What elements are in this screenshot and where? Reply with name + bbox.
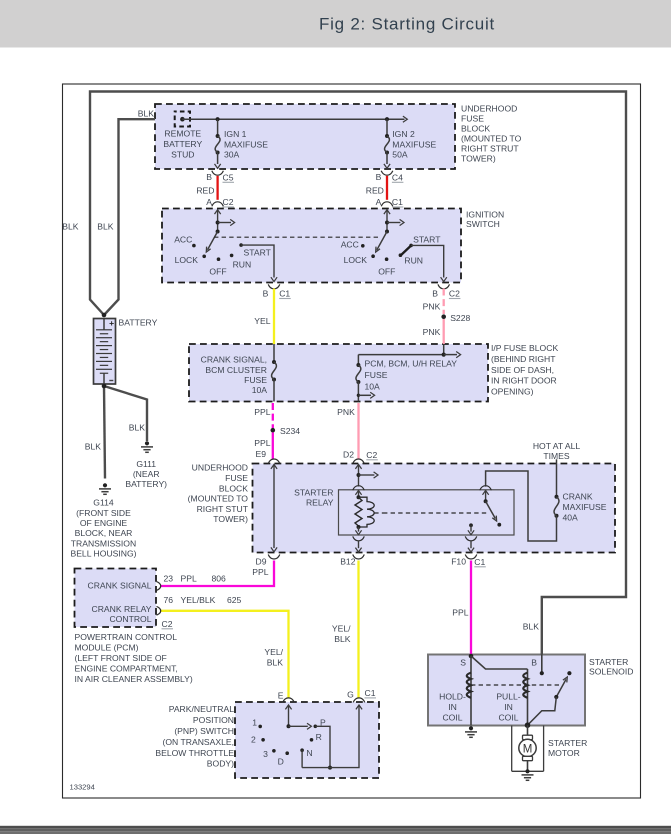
wire PPL S234 to E9 — [272, 432, 274, 459]
header bar — [0, 0, 671, 48]
svg-text:BLK: BLK — [267, 658, 284, 668]
PNP contact dot R — [310, 738, 314, 742]
svg-text:TRANSMISSION: TRANSMISSION — [71, 538, 136, 548]
svg-text:BCM CLUSTER: BCM CLUSTER — [205, 365, 267, 375]
svg-text:BATTERY): BATTERY) — [125, 479, 167, 489]
I/P feed arrow right — [444, 354, 457, 356]
connector C2 exit arc (ignition right) — [438, 284, 450, 289]
svg-text:PPL: PPL — [181, 573, 197, 583]
inner box bottom crossing (coil) — [353, 536, 365, 541]
starter motor circle M — [519, 739, 536, 756]
I/P fuse block box — [189, 344, 488, 402]
ignition left entry arrow — [217, 210, 219, 231]
svg-text:10A: 10A — [252, 385, 268, 395]
PNP contact dot 3 — [272, 749, 276, 753]
svg-text:N: N — [306, 748, 312, 758]
contact dot START left — [239, 243, 243, 247]
solenoid armature — [556, 679, 566, 697]
svg-text:30A: 30A — [224, 150, 240, 160]
svg-text:RUN: RUN — [404, 255, 423, 265]
svg-text:(FRONT SIDE: (FRONT SIDE — [76, 508, 131, 518]
inner box top crossing (switch) — [480, 486, 492, 491]
svg-text:IN RIGHT DOOR: IN RIGHT DOOR — [491, 376, 557, 386]
relay coil inductor loop — [359, 497, 375, 527]
contact dot RUN left — [230, 254, 234, 258]
wire IGN2 drop — [386, 119, 388, 136]
PNP contact dot 1 — [258, 725, 262, 729]
svg-text:(ON TRANSAXLE,: (ON TRANSAXLE, — [163, 737, 234, 747]
svg-text:BLK: BLK — [523, 622, 540, 632]
PCM pin arc 76 — [157, 606, 161, 615]
solenoid S to pull-in wire — [471, 656, 528, 669]
svg-text:BODY): BODY) — [207, 759, 234, 769]
svg-text:PARK/NEUTRAL: PARK/NEUTRAL — [169, 704, 234, 714]
I/P left wire exit — [273, 380, 275, 402]
page frame — [63, 84, 641, 798]
svg-text:FUSE: FUSE — [461, 114, 484, 124]
svg-text:BLK: BLK — [334, 634, 351, 644]
svg-text:YEL: YEL — [254, 316, 270, 326]
svg-text:SOLENOID: SOLENOID — [589, 667, 633, 677]
PNP output wire P branch — [315, 726, 330, 767]
svg-text:Fig 2: Starting Circuit: Fig 2: Starting Circuit — [319, 15, 495, 34]
svg-text:A: A — [206, 197, 212, 207]
svg-text:PULL-: PULL- — [496, 692, 520, 702]
PNP output junction dot — [328, 766, 332, 770]
svg-text:YEL/BLK: YEL/BLK — [181, 595, 216, 605]
wire IGN1 to C5 exit — [217, 153, 219, 165]
relay switch pivot dot — [484, 499, 488, 503]
contact dot ACC left — [192, 244, 196, 248]
svg-text:(MOUNTED TO: (MOUNTED TO — [188, 494, 249, 504]
starter motor brush bottom — [523, 756, 533, 760]
wire PNK S228 to I/P box — [443, 319, 445, 344]
svg-text:A: A — [376, 197, 382, 207]
wire IGN2 to C4 exit — [386, 153, 388, 165]
connector C1 entry arc — [381, 202, 393, 207]
svg-text:BELL HOUSING): BELL HOUSING) — [70, 549, 136, 559]
svg-text:LOCK: LOCK — [175, 255, 199, 265]
svg-text:OFF: OFF — [209, 266, 226, 276]
svg-text:2: 2 — [251, 735, 256, 745]
PCM box — [75, 569, 157, 628]
svg-text:B: B — [432, 288, 438, 298]
svg-text:OPENING): OPENING) — [491, 387, 534, 397]
wire PPL F10 to solenoid S — [470, 561, 472, 655]
connector G entry arc — [353, 698, 365, 703]
svg-text:ENGINE COMPARTMENT,: ENGINE COMPARTMENT, — [75, 663, 178, 673]
I/P lower branch arrow — [358, 394, 371, 396]
relay coil branch arrow — [359, 474, 375, 476]
relay coil lower dot — [357, 525, 361, 529]
svg-text:C2: C2 — [366, 450, 377, 460]
ignition right wiper to LOCK — [377, 232, 387, 250]
connector E entry arc — [283, 698, 295, 703]
svg-text:B: B — [531, 657, 537, 667]
ignition left branch arrow — [218, 222, 231, 224]
svg-text:C2: C2 — [162, 619, 173, 629]
svg-text:MAXIFUSE: MAXIFUSE — [392, 139, 436, 149]
svg-text:B: B — [376, 172, 382, 182]
svg-text:+: + — [109, 318, 114, 328]
battery junction dot top — [102, 313, 107, 318]
PNP wiper arrow to P — [289, 725, 308, 727]
wire PNK I/P to D2 — [357, 403, 359, 459]
ignition left junction dot upper — [216, 221, 220, 225]
splice dot S228 — [441, 314, 446, 319]
solenoid coils-plunger dashed link — [471, 684, 560, 686]
wire PNK dashed ignition C2 to S228 — [443, 289, 445, 315]
svg-text:FUSE: FUSE — [225, 473, 248, 483]
svg-text:BLK: BLK — [97, 221, 114, 231]
relay coil exit wire — [358, 527, 360, 532]
relay pass-through wire E9-D9 — [273, 465, 275, 548]
svg-text:S: S — [460, 658, 466, 668]
relay F10 exit wire — [470, 541, 472, 548]
svg-text:1: 1 — [252, 717, 257, 727]
connector B12 exit arc — [353, 555, 365, 560]
svg-text:B: B — [263, 288, 269, 298]
contact dot OFF left — [217, 257, 221, 261]
svg-text:CRANK SIGNAL: CRANK SIGNAL — [88, 581, 152, 591]
battery junction dot bottom — [102, 384, 107, 389]
svg-text:806: 806 — [212, 573, 227, 583]
svg-text:G111: G111 — [136, 459, 156, 469]
PNP contact dot 2 — [261, 738, 265, 742]
svg-text:PNK: PNK — [423, 302, 441, 312]
connector E9 entry arc — [268, 459, 280, 464]
svg-text:STARTER: STARTER — [548, 738, 587, 748]
relay switch contact dot — [497, 523, 501, 527]
svg-text:BLOCK: BLOCK — [219, 483, 248, 493]
hold-in coil wire — [470, 656, 472, 726]
PCM pin arc 23 — [157, 582, 161, 591]
hold-in coil bumps — [467, 673, 471, 698]
wire RED right — [386, 176, 388, 200]
svg-text:ACC: ACC — [174, 235, 192, 245]
connector C5 exit arc — [212, 171, 224, 176]
svg-text:FUSE: FUSE — [244, 375, 267, 385]
svg-text:BATTERY: BATTERY — [163, 139, 202, 149]
svg-text:PPL: PPL — [452, 607, 468, 617]
fuse IGN 2 MAXIFUSE 50A — [385, 134, 389, 138]
starter motor brush top — [523, 735, 533, 739]
svg-text:(LEFT FRONT SIDE OF: (LEFT FRONT SIDE OF — [75, 653, 167, 663]
relay coil zigzag — [355, 497, 362, 526]
svg-text:PPL: PPL — [254, 407, 270, 417]
svg-text:D: D — [278, 756, 284, 766]
svg-text:(BEHIND RIGHT: (BEHIND RIGHT — [491, 354, 556, 364]
svg-text:B: B — [206, 172, 212, 182]
svg-text:RIGHT STRUT: RIGHT STRUT — [461, 143, 519, 153]
ground G114 symbol — [103, 483, 107, 487]
svg-text:ACC: ACC — [341, 240, 359, 250]
svg-text:START: START — [413, 234, 441, 244]
solenoid armature linkage — [528, 697, 557, 725]
connector C4 exit arc — [381, 171, 393, 176]
wire BLK battery to remote battery stud — [104, 119, 155, 315]
solenoid B wire inside — [541, 655, 543, 674]
svg-text:OFF: OFF — [378, 267, 395, 277]
junction dot IGN2 tap — [385, 117, 389, 121]
svg-text:SWITCH: SWITCH — [466, 219, 500, 229]
svg-text:E: E — [278, 691, 284, 701]
solenoid armature pivot dot — [554, 695, 558, 699]
svg-text:CRANK RELAY: CRANK RELAY — [91, 604, 151, 614]
svg-text:IN: IN — [448, 702, 457, 712]
relay coil-armature dashed link — [374, 512, 488, 514]
relay coil upper dot — [357, 495, 361, 499]
ignition switch box — [162, 209, 461, 283]
contact dot LOCK left — [202, 254, 206, 258]
ground below hold-in coil — [469, 726, 473, 730]
PNP output wire to G — [302, 705, 359, 767]
ignition left junction dot lower — [216, 230, 220, 234]
contact dot START right — [409, 244, 413, 248]
PNP contact dot P — [314, 725, 318, 729]
svg-text:COIL: COIL — [498, 713, 518, 723]
starter relay inner box — [339, 490, 515, 535]
svg-text:RUN: RUN — [233, 260, 252, 270]
ignition right junction dot lower — [385, 230, 389, 234]
PNP switch box — [235, 702, 379, 778]
svg-text:E9: E9 — [255, 449, 266, 459]
svg-text:PNK: PNK — [423, 327, 441, 337]
ignition right entry arrow — [386, 210, 388, 231]
svg-text:POWERTRAIN CONTROL: POWERTRAIN CONTROL — [75, 632, 178, 642]
wire YEL B12 to PNP G — [357, 561, 359, 699]
svg-text:MAXIFUSE: MAXIFUSE — [563, 502, 607, 512]
PNP wiper junction dot — [287, 724, 291, 728]
relay coil wire to zigzag — [358, 490, 360, 497]
starter motor feed wire — [527, 725, 529, 735]
svg-text:I/P FUSE BLOCK: I/P FUSE BLOCK — [491, 343, 558, 353]
ground G111 symbol — [145, 441, 149, 445]
ignition left wiper to LOCK — [208, 232, 218, 250]
svg-text:IGNITION: IGNITION — [466, 209, 504, 219]
connector F10 exit arc — [465, 555, 477, 560]
svg-text:S228: S228 — [450, 313, 470, 323]
junction dot IGN1 tap — [216, 117, 220, 121]
svg-text:HOLD-: HOLD- — [439, 692, 466, 702]
splice dot S234 — [271, 428, 276, 433]
svg-text:C1: C1 — [474, 557, 485, 567]
svg-text:R: R — [316, 732, 322, 742]
wire PPL D9 to PCM pin 23 — [161, 561, 274, 587]
svg-text:STARTER: STARTER — [589, 657, 628, 667]
PNP contact dot N — [300, 748, 304, 752]
svg-text:IGN 2: IGN 2 — [392, 129, 415, 139]
ground below starter motor — [525, 769, 529, 773]
wire RED left — [216, 176, 218, 200]
relay coil feed wire — [358, 465, 360, 487]
contact dot RUN right — [399, 253, 403, 257]
contact dot LOCK right — [371, 254, 375, 258]
svg-text:BLK: BLK — [138, 109, 155, 119]
wire BLK battery to starter solenoid B (left/top/right run) — [90, 92, 626, 655]
svg-text:B12: B12 — [340, 557, 356, 567]
svg-text:CONTROL: CONTROL — [109, 614, 151, 624]
svg-text:RELAY: RELAY — [306, 497, 334, 507]
junction dot I/P feed — [442, 353, 446, 357]
ignition mechanical link dashed — [214, 236, 381, 238]
fuse CRANK MAXIFUSE 40A — [555, 495, 559, 499]
PNP contact dot D — [285, 751, 289, 755]
svg-text:C1: C1 — [392, 197, 403, 207]
relay B12 exit wire — [358, 541, 360, 548]
svg-text:UNDERHOOD: UNDERHOOD — [461, 104, 517, 114]
svg-text:RIGHT STUT: RIGHT STUT — [197, 504, 249, 514]
solenoid armature contact dot — [567, 671, 571, 675]
ignition right RUN-START bar — [400, 245, 411, 255]
ignition right junction dot upper — [385, 221, 389, 225]
fuse PCM BCM U/H RELAY 10A — [356, 363, 360, 367]
svg-text:YEL/: YEL/ — [332, 624, 351, 634]
svg-text:BATTERY: BATTERY — [119, 318, 158, 328]
svg-text:MOTOR: MOTOR — [548, 748, 580, 758]
bottom scrollbar band — [0, 826, 671, 828]
inner box top crossing (coil) — [353, 486, 365, 491]
svg-text:C2: C2 — [223, 197, 234, 207]
svg-text:23: 23 — [164, 573, 174, 583]
wire BLK battery to ground G114 — [104, 386, 105, 479]
I/P right wire entry — [443, 344, 445, 355]
PNP output wire N branch — [301, 750, 303, 767]
svg-text:REMOTE: REMOTE — [164, 129, 201, 139]
svg-text:PNK: PNK — [337, 407, 355, 417]
svg-text:C4: C4 — [392, 172, 403, 182]
svg-text:UNDERHOOD: UNDERHOOD — [192, 463, 248, 473]
junction dot below fuse — [357, 394, 360, 397]
contact dot OFF right — [385, 257, 389, 261]
wire to CRANK MAXIFUSE — [556, 459, 558, 497]
svg-text:IN AIR CLEANER ASSEMBLY): IN AIR CLEANER ASSEMBLY) — [75, 674, 193, 684]
svg-text:BLOCK: BLOCK — [461, 124, 490, 134]
svg-text:C2: C2 — [449, 289, 460, 299]
contact dot ACC right — [361, 244, 365, 248]
svg-text:F10: F10 — [451, 557, 466, 567]
svg-text:76: 76 — [164, 595, 174, 605]
remote battery stud symbol — [175, 112, 190, 127]
svg-text:D9: D9 — [256, 557, 267, 567]
relay coil branch dot — [357, 473, 361, 477]
svg-text:IN: IN — [504, 702, 513, 712]
svg-text:POSITION: POSITION — [193, 715, 234, 725]
relay output contact dot — [469, 523, 473, 527]
connector C2 entry arc — [212, 202, 224, 207]
svg-text:(MOUNTED TO: (MOUNTED TO — [461, 133, 522, 143]
svg-text:STUD: STUD — [171, 150, 194, 160]
starter motor case — [512, 726, 544, 772]
svg-text:(PNP) SWITCH: (PNP) SWITCH — [174, 726, 234, 736]
ignition right branch arrow — [387, 222, 400, 224]
wire IGN1 drop — [217, 119, 219, 136]
fuse IGN 1 MAXIFUSE 30A — [216, 134, 220, 138]
battery symbol — [94, 319, 116, 385]
svg-text:RED: RED — [366, 186, 384, 196]
svg-text:IGN 1: IGN 1 — [224, 129, 247, 139]
connector C1 exit arc (ignition left) — [268, 284, 280, 289]
svg-text:BLK: BLK — [129, 423, 146, 433]
svg-text:C5: C5 — [223, 172, 234, 182]
svg-text:YEL/: YEL/ — [264, 647, 283, 657]
wire BLK battery to ground G111 — [104, 386, 147, 441]
connector D2 entry arc — [353, 459, 365, 464]
ignition left START output wire — [241, 245, 274, 277]
svg-text:(NEAR: (NEAR — [133, 469, 160, 479]
I/P right fuse drop — [357, 355, 359, 365]
pull-in coil wire — [527, 669, 529, 725]
svg-text:STARTER: STARTER — [294, 487, 333, 497]
connector D9 exit arc — [268, 555, 280, 560]
svg-text:CRANK: CRANK — [563, 491, 593, 501]
wire YEL ignition C1 to I/P box — [273, 289, 275, 345]
I/P right fuse exit wire — [357, 382, 359, 402]
svg-text:BLK: BLK — [62, 221, 79, 231]
svg-text:40A: 40A — [563, 512, 579, 522]
inner box bottom crossing (F10) — [465, 536, 477, 541]
maxifuse routing wire — [486, 471, 557, 541]
underhood fuse block (relay) box — [253, 464, 616, 553]
svg-text:S234: S234 — [280, 426, 300, 436]
svg-text:CRANK SIGNAL,: CRANK SIGNAL, — [201, 355, 267, 365]
bus wire from stud — [182, 118, 387, 120]
svg-text:3: 3 — [263, 749, 268, 759]
bus arrow to right — [387, 118, 405, 120]
svg-text:TOWER): TOWER) — [213, 514, 248, 524]
svg-text:50A: 50A — [392, 150, 408, 160]
svg-text:G: G — [347, 689, 354, 699]
svg-text:C1: C1 — [279, 289, 290, 299]
ignition right START output wire — [411, 245, 444, 277]
pull-in coil bumps — [523, 673, 527, 698]
starter solenoid box — [428, 655, 585, 726]
svg-text:625: 625 — [227, 595, 242, 605]
svg-text:SIDE OF DASH,: SIDE OF DASH, — [491, 365, 554, 375]
relay switch armature — [486, 501, 496, 518]
relay switch feed — [485, 490, 487, 501]
svg-text:BLK: BLK — [85, 442, 102, 452]
svg-text:PPL: PPL — [252, 567, 268, 577]
svg-text:MODULE (PCM): MODULE (PCM) — [75, 642, 139, 652]
svg-text:COIL: COIL — [442, 713, 462, 723]
solenoid B contact dot — [540, 671, 544, 675]
svg-text:M: M — [523, 743, 533, 755]
wire YEL PCM pin 76 to PNP E — [161, 611, 289, 699]
svg-text:START: START — [244, 248, 272, 258]
svg-text:PPL: PPL — [254, 438, 270, 448]
svg-text:OF ENGINE: OF ENGINE — [80, 518, 128, 528]
svg-text:133294: 133294 — [70, 783, 95, 792]
wire PPL dashed I/P to S234 — [272, 403, 274, 428]
starter motor ground wire — [527, 761, 529, 772]
PNP E entry arrow — [288, 705, 290, 726]
svg-text:BELOW THROTTLE: BELOW THROTTLE — [155, 748, 234, 758]
fuse CRANK SIGNAL BCM CLUSTER 10A — [272, 360, 276, 364]
svg-text:HOT AT ALL: HOT AT ALL — [533, 441, 581, 451]
I/P right horizontal feed — [358, 354, 443, 356]
solenoid S junction dot — [469, 654, 474, 659]
svg-text:10A: 10A — [365, 381, 381, 391]
I/P left wire entry — [273, 344, 275, 362]
svg-text:FUSE: FUSE — [365, 370, 388, 380]
svg-text:TOWER): TOWER) — [461, 153, 496, 163]
svg-text:RED: RED — [196, 186, 214, 196]
svg-text:D2: D2 — [343, 450, 354, 460]
underhood fuse block (top) box — [155, 104, 455, 169]
svg-text:C1: C1 — [365, 688, 376, 698]
relay F10 wire upper — [470, 525, 472, 531]
